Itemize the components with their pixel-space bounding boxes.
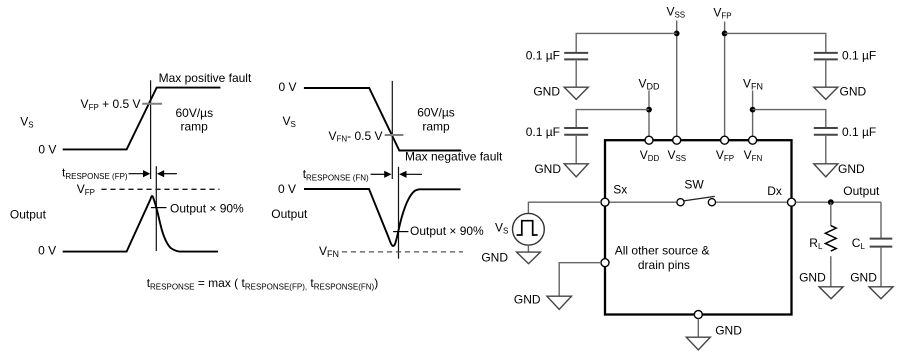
junction node on VFP (722, 31, 728, 37)
tick mark VFN-0.5V level (385, 134, 404, 136)
wire bottom pin to ground (697, 319, 699, 338)
ground (other pins) (547, 296, 572, 309)
svg-text:Sx: Sx (613, 183, 627, 197)
svg-text:Max negative fault: Max negative fault (405, 150, 503, 164)
wire output to RL (830, 202, 832, 226)
capacitor CL (870, 239, 893, 247)
callout line Output x 90% (FP) (151, 207, 167, 209)
svg-text:GND: GND (481, 251, 508, 265)
wire C4 to ground (825, 59, 827, 87)
pin GND (bottom) (694, 311, 702, 319)
label All other source and drain pins (615, 243, 710, 272)
svg-text:Output: Output (271, 207, 308, 221)
svg-text:Output × 90%: Output × 90% (410, 224, 484, 238)
junction node on VDD (646, 107, 652, 113)
vertical cursor line at output 90% (FN) (398, 167, 400, 259)
ground (C1) (564, 87, 588, 99)
capacitor C4 0.1uF (814, 53, 838, 60)
svg-text:GND: GND (850, 271, 877, 285)
junction node on VSS (674, 31, 680, 37)
VS waveform (positive fault ramp) (63, 88, 221, 150)
svg-text:Output: Output (843, 184, 880, 198)
vertical cursor line at VFN-0.5V crossing (FN) (391, 81, 393, 179)
wire VSS to C1 (576, 33, 677, 52)
ground (VS source) (517, 252, 541, 264)
ground (C2) (564, 164, 588, 177)
junction node output (828, 199, 834, 205)
pin Sx (601, 198, 609, 206)
svg-text:0.1 µF: 0.1 µF (842, 48, 876, 62)
wire VFP vertical (724, 22, 726, 141)
pin VFN (749, 136, 757, 144)
wire VFN vertical (752, 91, 754, 141)
switch SW contact left (677, 199, 684, 206)
svg-text:0 V: 0 V (38, 143, 56, 157)
wire VFN to C3 (753, 110, 826, 128)
svg-text:All other source &: All other source & (615, 243, 710, 257)
output waveform (negative fault) (304, 189, 461, 246)
svg-text:0 V: 0 V (278, 80, 296, 94)
wire output to CL (880, 202, 882, 238)
wire Sx to switch (605, 201, 681, 203)
vertical cursor line at VFP+0.5V crossing (FP) (150, 80, 152, 179)
svg-text:ramp: ramp (422, 120, 450, 134)
capacitor C1 0.1uF (564, 53, 588, 60)
VS waveform (negative fault ramp) (304, 88, 461, 151)
dashed level line VFN (342, 251, 463, 253)
svg-text:60V/µs: 60V/µs (175, 106, 213, 120)
svg-text:SW: SW (684, 178, 704, 192)
svg-text:Output × 90%: Output × 90% (170, 201, 244, 215)
DUT box (switch IC) (605, 140, 792, 314)
pin VDD (645, 136, 653, 144)
ground (CL) (869, 287, 893, 299)
pin VSS (673, 136, 681, 144)
ground (C3) (814, 164, 838, 177)
capacitor C2 0.1uF (564, 128, 588, 135)
svg-text:Output: Output (10, 207, 47, 221)
svg-text:0.1 µF: 0.1 µF (526, 125, 560, 139)
pin other source/drain (601, 259, 609, 267)
wire C1 to ground (575, 59, 577, 87)
svg-text:drain pins: drain pins (638, 258, 690, 272)
svg-text:GND: GND (840, 85, 867, 99)
svg-text:ramp: ramp (181, 120, 209, 134)
pin Dx (788, 198, 796, 206)
resistor RL (825, 226, 836, 252)
wire CL to ground (880, 247, 882, 287)
ground (C4) (814, 87, 838, 99)
junction node on VFN (750, 107, 756, 113)
wire VDD to C2 (576, 110, 649, 128)
svg-text:GND: GND (534, 162, 561, 176)
wire RL to ground (830, 256, 832, 287)
ground (RL) (819, 287, 843, 299)
wire switch to Dx (712, 201, 792, 203)
output waveform (positive fault) (63, 196, 218, 252)
svg-text:Max positive fault: Max positive fault (159, 71, 252, 85)
dimension arrows tRESPONSE (FN) (371, 171, 422, 178)
wire C2 to ground (575, 135, 577, 164)
wire Sx to VS source (528, 202, 601, 213)
svg-text:0.1 µF: 0.1 µF (526, 48, 560, 62)
switch SW lever (684, 196, 715, 201)
svg-text:GND: GND (715, 323, 742, 337)
dimension arrows tRESPONSE (FP) (129, 170, 177, 177)
svg-text:GND: GND (838, 162, 865, 176)
svg-text:60V/µs: 60V/µs (417, 106, 455, 120)
vertical cursor line at output 90% (FP) (155, 166, 157, 251)
capacitor C3 0.1uF (814, 128, 838, 135)
ground (bottom) (686, 337, 710, 350)
wire VS source to ground (527, 245, 529, 252)
pin VFP (721, 136, 729, 144)
wire Dx to output (796, 201, 882, 203)
svg-text:GND: GND (514, 292, 541, 306)
wire VDD vertical (648, 91, 650, 141)
tick mark VFP+0.5V level (142, 103, 162, 105)
svg-text:GND: GND (799, 271, 826, 285)
wire VFP to C4 (725, 33, 826, 52)
svg-text:Dx: Dx (767, 184, 782, 198)
svg-text:GND: GND (533, 85, 560, 99)
source VS (pulse generator) (513, 213, 545, 245)
wire other pins to ground (559, 263, 601, 297)
wire VSS vertical (676, 21, 678, 141)
dashed level line VFP (101, 188, 219, 190)
svg-text:0.1 µF: 0.1 µF (842, 125, 876, 139)
wire C3 to ground (825, 135, 827, 164)
svg-text:0 V: 0 V (278, 182, 296, 196)
callout line Output x 90% (FN) (393, 231, 408, 233)
switch SW contact right (708, 199, 715, 206)
label 60V/us ramp (FP) (175, 106, 213, 134)
svg-text:0 V: 0 V (38, 243, 56, 257)
label 60V/us ramp (FN) (417, 106, 455, 134)
